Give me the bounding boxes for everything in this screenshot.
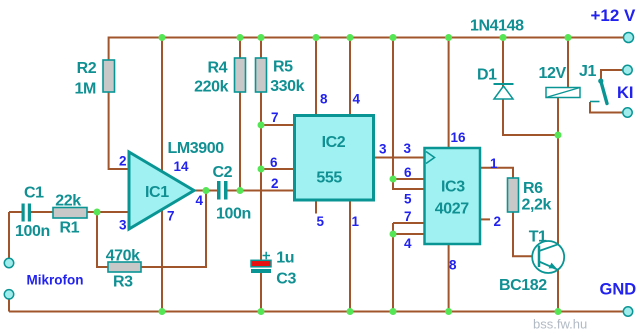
svg-text:R1: R1 [60, 220, 80, 237]
svg-text:D1: D1 [477, 67, 497, 84]
svg-text:12V: 12V [539, 65, 567, 82]
svg-text:16: 16 [451, 130, 467, 145]
svg-text:2,2k: 2,2k [522, 197, 552, 214]
svg-text:100n: 100n [15, 223, 50, 240]
wire IC1 pin7 to ground rail [161, 208, 163, 312]
wire 555 pin3 to IC3 pin3 [374, 157, 425, 159]
svg-text:6: 6 [404, 165, 412, 180]
svg-text:bss.fw.hu: bss.fw.hu [533, 317, 587, 331]
resistor R4 [235, 58, 246, 92]
resistor R3 [108, 262, 141, 272]
wire D1 branch [503, 38, 558, 136]
svg-text:1u: 1u [276, 250, 294, 267]
wire 555 pin4 [349, 38, 351, 117]
node IC3 feed/rail [390, 34, 397, 41]
resistor R2 [103, 60, 115, 92]
node pin7/ground [159, 308, 166, 315]
terminal KI bottom [623, 108, 632, 117]
wire IC3 pin7/4 to ground [392, 223, 394, 312]
wire relay top [567, 38, 569, 88]
svg-text:2: 2 [271, 176, 279, 191]
wire C1 to R1 [31, 211, 53, 213]
svg-text:4: 4 [353, 92, 361, 107]
svg-text:2: 2 [494, 214, 502, 229]
diode D1 [494, 84, 514, 99]
node relay/rail [565, 34, 572, 41]
node R5/rail [258, 34, 265, 41]
svg-text:+12 V: +12 V [591, 6, 636, 25]
wire IC3 pin16 [448, 38, 450, 149]
wire IC3 pin5/6 feed [393, 38, 425, 190]
node IC3 pin8/ground [445, 308, 452, 315]
svg-text:1: 1 [490, 156, 498, 171]
svg-text:LM3900: LM3900 [168, 140, 225, 157]
svg-text:J1: J1 [579, 63, 596, 80]
wire R6 to T1 base [513, 212, 538, 256]
wire mic top terminal [8, 212, 10, 258]
node C2/R4 [237, 187, 244, 194]
terminal GND [623, 307, 632, 316]
wire R5 top [260, 38, 262, 59]
node IC3 gnd/ground [390, 308, 397, 315]
wire IC3 pin2 stub [480, 218, 490, 220]
node pin14/rail [159, 34, 166, 41]
svg-text:4027: 4027 [435, 201, 469, 218]
capacitor C2 [217, 181, 228, 200]
terminal mic bottom [4, 290, 13, 299]
node 555 pin8/rail [313, 34, 320, 41]
svg-text:IC1: IC1 [145, 184, 169, 201]
op-amp IC1 LM3900 [129, 152, 194, 229]
svg-text:4: 4 [196, 193, 204, 208]
svg-text:7: 7 [271, 110, 279, 125]
wire IC3 pin6 [393, 178, 425, 180]
svg-text:T1: T1 [529, 229, 547, 246]
svg-text:555: 555 [316, 170, 342, 187]
svg-text:IC2: IC2 [322, 134, 346, 151]
svg-text:BC182: BC182 [499, 277, 547, 294]
resistor R6 [508, 178, 519, 212]
wire C3 bottom to ground rail [260, 273, 262, 312]
wire IC1 output to C2 [194, 190, 217, 192]
svg-text:14: 14 [174, 159, 190, 174]
svg-text:6: 6 [270, 155, 278, 170]
svg-text:5: 5 [317, 214, 325, 229]
IC U2 555 box [295, 116, 374, 201]
node pin16/rail [445, 34, 452, 41]
node D1/relay/collector [555, 132, 562, 139]
wire IC3 pin1 to R6 [480, 168, 513, 178]
svg-text:3: 3 [379, 142, 387, 157]
svg-text:330k: 330k [270, 78, 304, 95]
svg-text:GND: GND [600, 281, 636, 299]
node R1/R3 input [94, 209, 101, 216]
transistor T1 BC182 [532, 241, 564, 273]
svg-text:470k: 470k [106, 248, 140, 265]
wire 555 pin7 [261, 124, 295, 126]
wire J1 middle terminal [601, 70, 623, 80]
node C3/ground [258, 308, 265, 315]
wire 555 pin5 stub [315, 200, 317, 214]
svg-text:R6: R6 [523, 180, 543, 197]
node 555 pin6/R5 [258, 166, 265, 173]
wire IC1 pin14 supply [161, 38, 163, 172]
wire mic bottom terminal to rail [8, 299, 10, 312]
wire feedback node down to R3 [97, 211, 108, 267]
wire relay bottom / T1 collector [557, 97, 559, 244]
node IC1 output [203, 187, 210, 194]
svg-text:IC3: IC3 [441, 179, 465, 196]
wire R5 bottom through 555 pins to C3 [260, 92, 262, 260]
svg-text:8: 8 [449, 258, 457, 273]
wire C2 to 555 pin2 [228, 190, 295, 192]
svg-text:C3: C3 [276, 271, 296, 288]
svg-text:100n: 100n [216, 206, 251, 223]
wire R1 to IC1 pin3 [87, 211, 129, 213]
node IC3 pin6 [390, 176, 397, 183]
wire R4 top [239, 38, 241, 59]
wire ground rail [9, 311, 623, 313]
node 555 pin4/rail [347, 34, 354, 41]
svg-text:2: 2 [119, 154, 127, 169]
node T1 emitter/ground [555, 308, 562, 315]
svg-text:C1: C1 [24, 185, 44, 202]
wire R3 to IC1 output feedback [141, 191, 206, 268]
svg-text:R3: R3 [113, 274, 133, 291]
wire R2 top branch [108, 37, 110, 61]
wire R4 bottom to C2 node [239, 92, 241, 191]
capacitor C3 electrolytic [251, 252, 271, 273]
svg-text:7: 7 [404, 209, 412, 224]
wire 555 pin8 [315, 38, 317, 117]
svg-text:R5: R5 [273, 59, 293, 76]
node 555 pin1/ground [347, 308, 354, 315]
terminal +12V [624, 33, 634, 43]
resistor R1 [53, 208, 87, 219]
wire 555 pin6 [261, 168, 295, 170]
node D1/rail [500, 34, 507, 41]
svg-text:KI: KI [617, 84, 634, 102]
svg-text:4: 4 [404, 236, 412, 251]
svg-text:3: 3 [119, 218, 127, 233]
capacitor C1 [22, 204, 32, 222]
resistor R5 [256, 58, 267, 92]
svg-text:Mikrofon: Mikrofon [27, 273, 84, 288]
terminal mic top [4, 258, 13, 267]
node 555 pin7/R5 [258, 122, 265, 129]
svg-text:1N4148: 1N4148 [470, 18, 524, 35]
svg-text:R2: R2 [77, 60, 97, 77]
svg-text:8: 8 [320, 92, 328, 107]
wire IC3 pin7 [393, 222, 425, 224]
wire J1 bottom terminal [590, 102, 623, 113]
wire mic input to C1 [9, 211, 22, 213]
node R4/rail [237, 34, 244, 41]
svg-text:7: 7 [167, 209, 175, 224]
svg-text:220k: 220k [194, 79, 228, 96]
svg-text:R4: R4 [208, 60, 228, 77]
svg-text:C2: C2 [213, 164, 233, 181]
IC U3 4027 box [425, 148, 481, 244]
node IC3 pin4 [390, 231, 397, 238]
svg-text:22k: 22k [55, 193, 81, 210]
svg-text:3: 3 [404, 141, 412, 156]
wire 555 pin1 to ground [349, 200, 351, 312]
wire IC3 pin8 to ground [448, 244, 450, 312]
wire top rail +12V [109, 37, 624, 39]
wire T1 emitter to ground [557, 270, 559, 312]
relay coil 12V [546, 88, 580, 98]
svg-text:5: 5 [404, 192, 412, 207]
wire R2 bottom to IC1 pin2 [109, 92, 129, 169]
switch J1 [590, 78, 607, 103]
wire IC3 pin4 [393, 233, 425, 235]
clock chevron pin3 [426, 152, 435, 164]
terminal KI top [623, 65, 632, 74]
svg-text:1M: 1M [75, 81, 96, 98]
svg-text:1: 1 [352, 214, 360, 229]
